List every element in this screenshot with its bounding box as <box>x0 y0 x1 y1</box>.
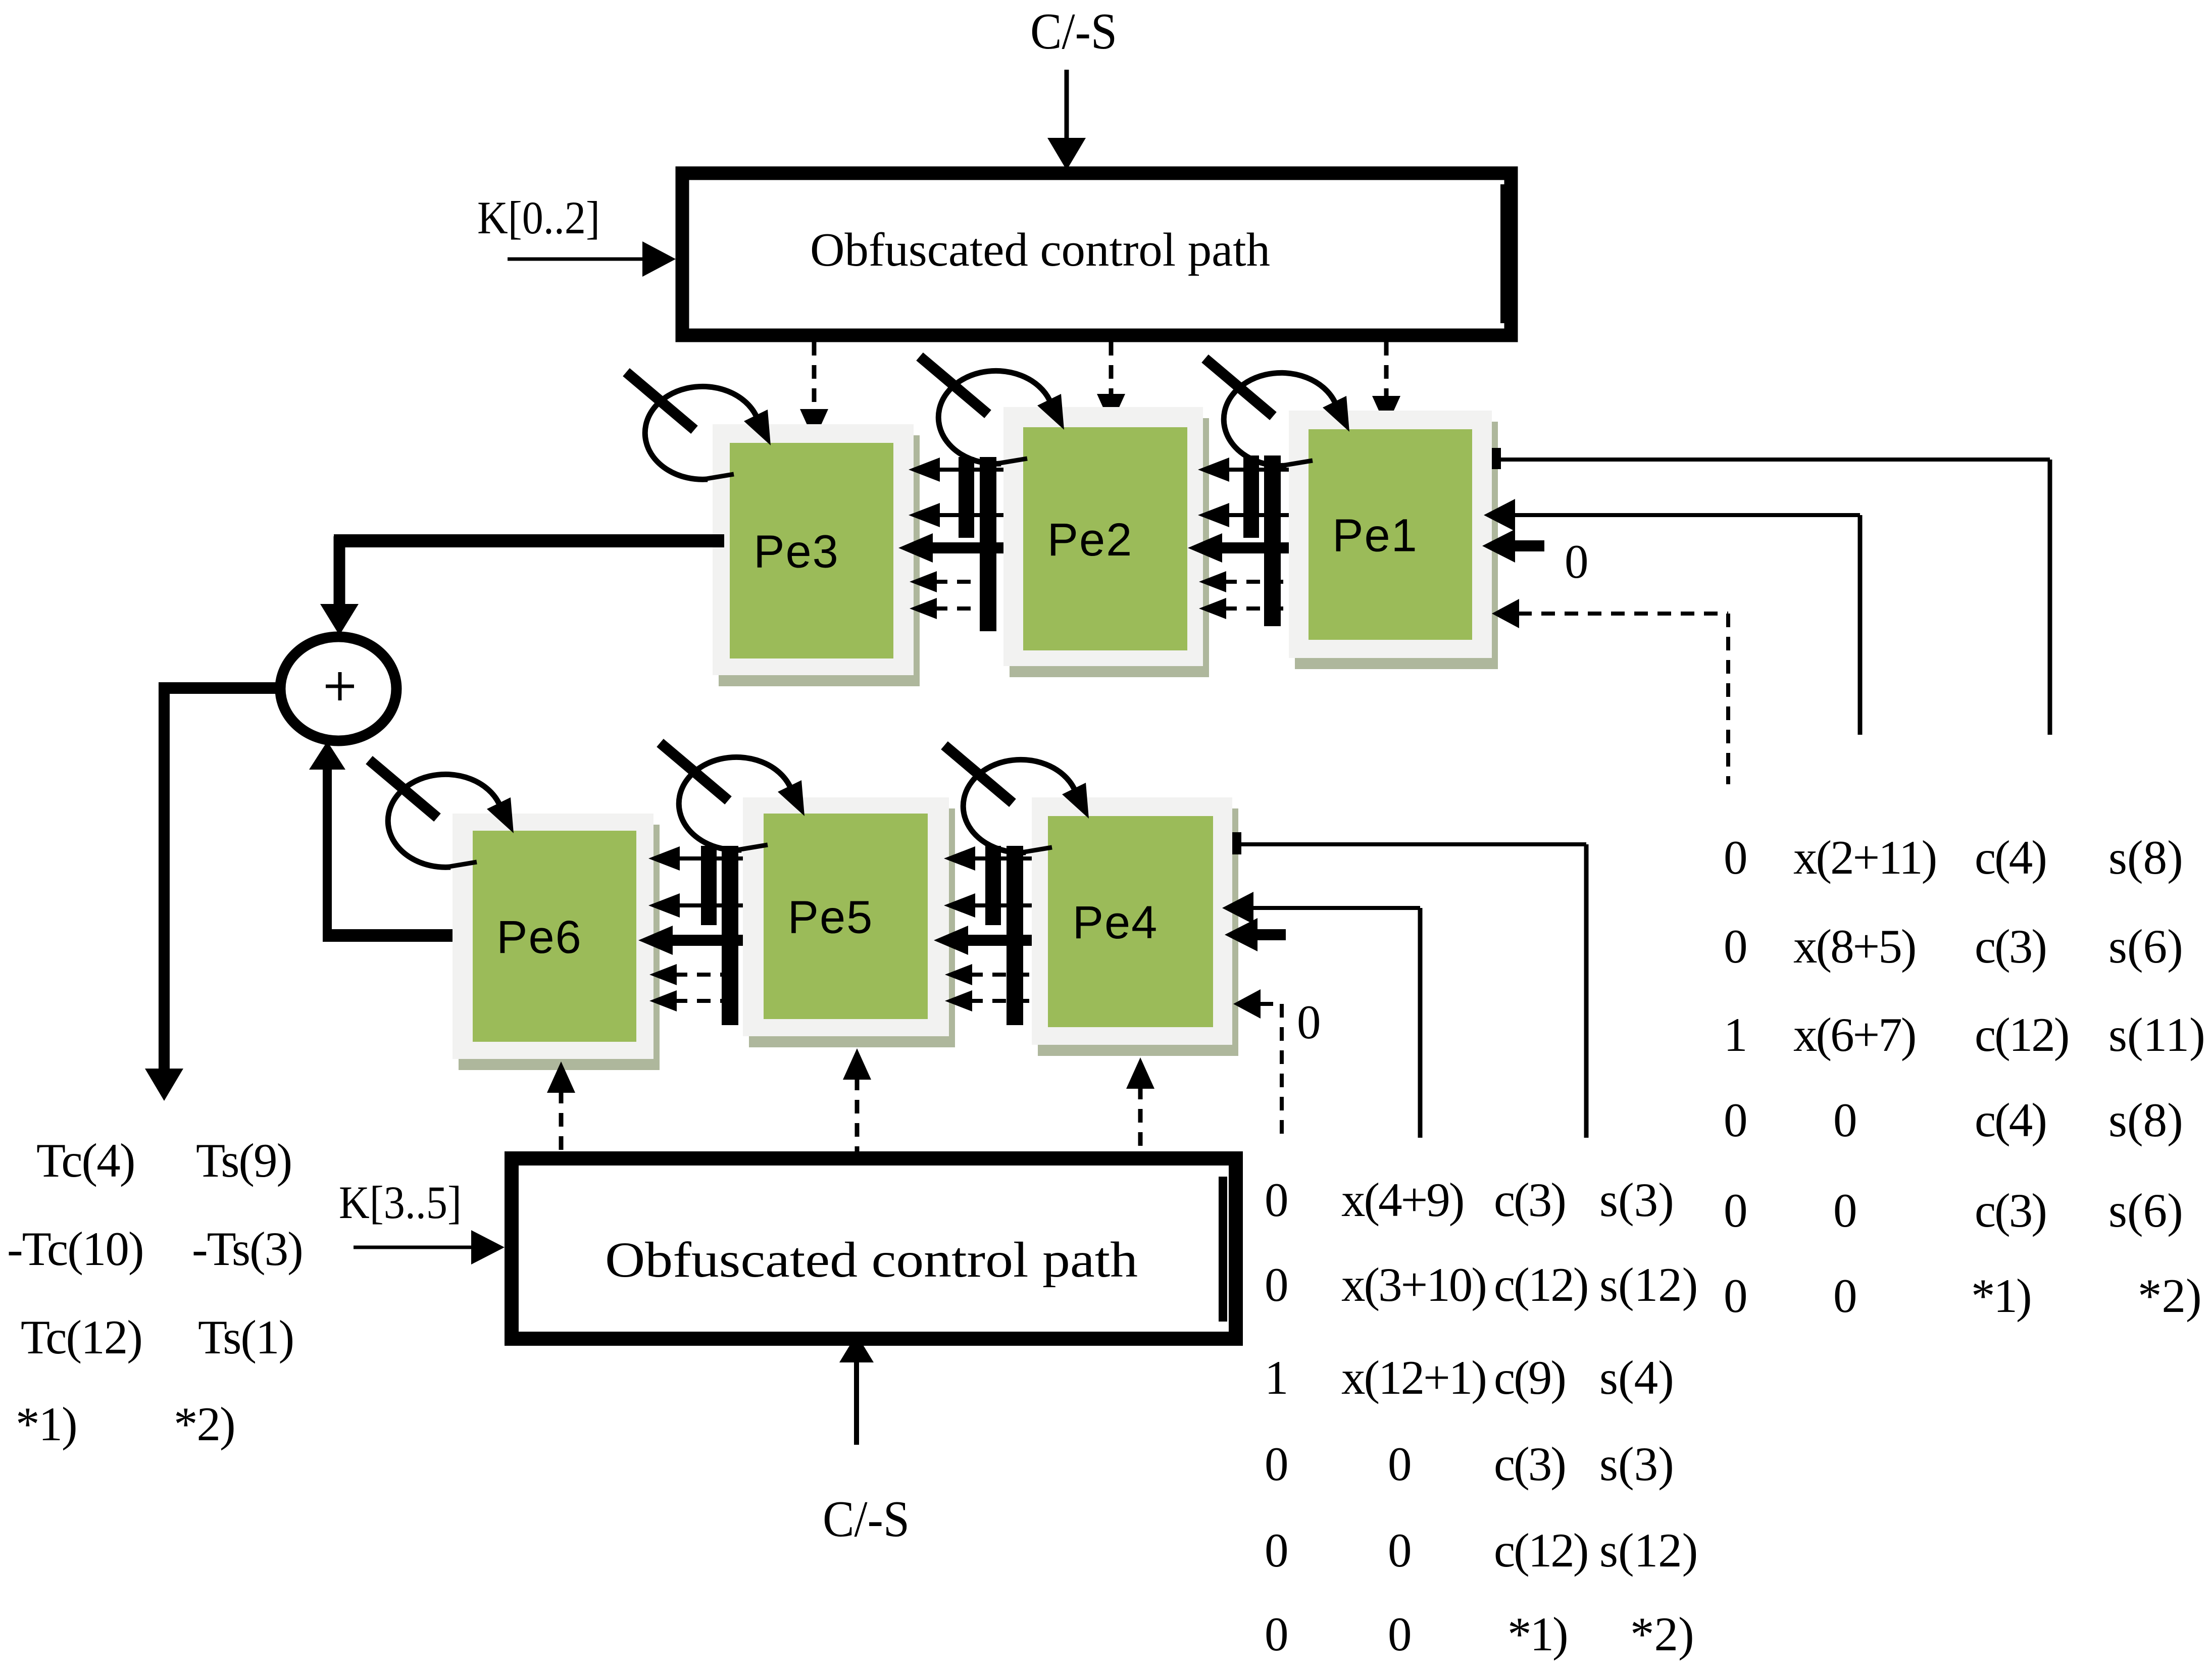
wire Pe4-to-Pe5 line 4 (dashed) <box>945 964 1032 985</box>
block Pe5 <box>743 797 955 1047</box>
svg-text:C/-S: C/-S <box>1030 3 1117 60</box>
svg-text:Pe3: Pe3 <box>753 526 839 578</box>
label right table row 5 <box>1724 1184 2183 1237</box>
label mid table row 4 <box>1265 1437 1674 1491</box>
svg-text:x(8+5): x(8+5) <box>1793 920 1915 973</box>
svg-text:x(2+11): x(2+11) <box>1793 831 1936 884</box>
label mid table row 5 <box>1265 1524 1698 1577</box>
wire adder output down arrow <box>145 682 183 1101</box>
svg-text:Pe2: Pe2 <box>1047 514 1133 566</box>
svg-text:s(4): s(4) <box>1599 1351 1674 1404</box>
svg-text:0: 0 <box>1724 1269 1746 1323</box>
wire K[3..5] arrow into bottom box <box>354 1230 505 1264</box>
svg-text:Pe6: Pe6 <box>496 911 582 963</box>
label right table row 3 <box>1724 1008 2205 1061</box>
wire Pe2-to-Pe3 line 2 <box>909 503 1003 527</box>
wire dashed control to Pe6 <box>547 1061 575 1151</box>
self-loop Pe1 <box>1205 359 1349 466</box>
bar Pe5-to-Pe6 long <box>722 846 738 1025</box>
bar Pe1-to-Pe2 short <box>1243 455 1259 538</box>
svg-text:K[3..5]: K[3..5] <box>339 1177 462 1228</box>
wire Pe1 constant 0 input (thick short) <box>1482 529 1544 563</box>
svg-text:c(3): c(3) <box>1494 1437 1565 1491</box>
bar Pe1-to-Pe2 long <box>1264 455 1281 626</box>
wire Pe4 input 1 from right <box>1232 832 1586 1138</box>
svg-text:-Ts(3): -Ts(3) <box>192 1222 303 1276</box>
svg-text:*1): *1) <box>1971 1269 2031 1323</box>
wire adder output (horizontal) <box>159 682 284 694</box>
wire dashed control to Pe1 <box>1372 342 1400 427</box>
svg-text:c(3): c(3) <box>1975 920 2046 973</box>
wire Pe6 output to adder (horizontal) <box>323 929 453 942</box>
wire Pe4 dashed input from right <box>1233 989 1282 1138</box>
svg-text:c(4): c(4) <box>1975 1093 2046 1147</box>
svg-text:c(3): c(3) <box>1975 1184 2046 1237</box>
svg-text:0: 0 <box>1265 1607 1287 1661</box>
svg-text:0: 0 <box>1833 1093 1856 1147</box>
svg-text:0: 0 <box>1388 1437 1411 1491</box>
svg-text:0: 0 <box>1388 1607 1411 1661</box>
svg-text:0: 0 <box>1265 1173 1287 1227</box>
svg-text:s(8): s(8) <box>2108 1093 2183 1147</box>
wire dashed control to Pe4 <box>1126 1057 1154 1151</box>
wire C/-S into top control box (down arrow) <box>1047 70 1086 170</box>
block obfuscated control path (bottom) <box>512 1158 1236 1339</box>
wire Pe5-to-Pe6 line 3 (thick) <box>638 926 743 955</box>
wire Pe1-to-Pe2 line 3 (thick) <box>1188 533 1289 563</box>
svg-text:0: 0 <box>1724 831 1746 884</box>
wire dashed control to Pe3 <box>800 342 828 440</box>
svg-text:x(3+10): x(3+10) <box>1341 1258 1486 1311</box>
svg-text:Tc(4): Tc(4) <box>36 1134 134 1187</box>
svg-text:c(12): c(12) <box>1494 1258 1587 1311</box>
svg-text:Pe1: Pe1 <box>1332 510 1418 562</box>
svg-text:s(12): s(12) <box>1599 1258 1698 1311</box>
svg-text:s(8): s(8) <box>2108 831 2183 884</box>
svg-text:Pe5: Pe5 <box>788 892 874 943</box>
label right table row 4 <box>1724 1093 2183 1147</box>
svg-text:s(3): s(3) <box>1599 1173 1674 1227</box>
wire Pe1-to-Pe2 line 4 (dashed) <box>1199 571 1289 592</box>
label right table row 6 <box>1724 1269 2202 1323</box>
self-loop Pe6 <box>369 760 514 867</box>
wire Pe4-to-Pe5 line 2 <box>944 893 1032 918</box>
wire Pe1 input 2 from right <box>1484 499 1860 735</box>
svg-text:*1): *1) <box>16 1397 77 1451</box>
svg-text:Pe4: Pe4 <box>1073 897 1159 948</box>
wire Pe2-to-Pe3 line 3 (thick) <box>898 533 1003 563</box>
svg-text:c(9): c(9) <box>1494 1351 1565 1404</box>
svg-text:Ts(9): Ts(9) <box>196 1134 291 1187</box>
wire Pe2-to-Pe3 line 1 <box>909 458 1003 482</box>
svg-text:0: 0 <box>1724 1184 1746 1237</box>
wire Pe3 output to adder (horizontal) <box>334 534 724 547</box>
svg-text:0: 0 <box>1265 1258 1287 1311</box>
svg-text:*2): *2) <box>174 1397 235 1451</box>
bar Pe2-to-Pe3 long <box>980 457 996 631</box>
wire Pe4-to-Pe5 line 3 (thick) <box>934 926 1032 955</box>
svg-text:0: 0 <box>1265 1437 1287 1491</box>
svg-text:s(3): s(3) <box>1599 1437 1674 1491</box>
wire Pe5-to-Pe6 line 5 (dashed) <box>649 990 743 1011</box>
bar Pe5-to-Pe6 short <box>701 846 717 925</box>
self-loop Pe3 <box>626 372 771 479</box>
label right table row 2 <box>1724 920 2183 973</box>
self-loop Pe5 <box>660 743 805 850</box>
block Pe2 <box>1003 407 1209 677</box>
wire Pe1 input 1 from right <box>1492 448 2050 735</box>
self-loop Pe2 <box>920 357 1064 464</box>
wire Pe1-to-Pe2 line 5 (dashed) <box>1199 598 1289 619</box>
svg-text:s(6): s(6) <box>2108 920 2183 973</box>
svg-text:K[0..2]: K[0..2] <box>477 192 600 243</box>
svg-text:s(11): s(11) <box>2108 1008 2205 1061</box>
svg-text:*2): *2) <box>2138 1269 2202 1323</box>
svg-text:s(6): s(6) <box>2108 1184 2183 1237</box>
wire Pe4-to-Pe5 line 1 <box>944 846 1032 871</box>
svg-text:Ts(1): Ts(1) <box>198 1310 293 1364</box>
svg-text:c(3): c(3) <box>1494 1173 1565 1227</box>
label mid table row 1 <box>1265 1173 1674 1227</box>
svg-text:c(12): c(12) <box>1494 1524 1587 1577</box>
wire Pe5-to-Pe6 line 4 (dashed) <box>649 964 743 985</box>
wire Pe2-to-Pe3 line 5 (dashed) <box>910 598 1003 619</box>
svg-text:c(4): c(4) <box>1975 831 2046 884</box>
wire Pe2-to-Pe3 line 4 (dashed) <box>910 571 1003 592</box>
block Pe6 <box>453 814 660 1070</box>
svg-text:c(12): c(12) <box>1975 1008 2068 1061</box>
adder + <box>280 637 396 741</box>
svg-text:0: 0 <box>1297 995 1321 1049</box>
svg-text:0: 0 <box>1265 1524 1287 1577</box>
label mid table row 2 <box>1265 1258 1698 1311</box>
svg-text:0: 0 <box>1724 1093 1746 1147</box>
svg-text:x(12+1): x(12+1) <box>1341 1351 1486 1404</box>
block Pe1 <box>1289 411 1498 669</box>
wire Pe4 constant 0 input (thick short) <box>1225 918 1286 951</box>
svg-text:-Tc(10): -Tc(10) <box>7 1222 143 1276</box>
block Pe4 <box>1032 797 1238 1056</box>
svg-text:1: 1 <box>1724 1008 1746 1061</box>
svg-text:x(4+9): x(4+9) <box>1341 1173 1463 1227</box>
label right table row 1 <box>1724 831 2183 884</box>
bar Pe4-to-Pe5 short <box>985 846 1001 925</box>
wire Pe4-to-Pe5 line 5 (dashed) <box>945 990 1032 1011</box>
self-loop Pe4 <box>944 745 1089 852</box>
svg-text:1: 1 <box>1265 1351 1287 1404</box>
wire dashed control to Pe2 <box>1097 342 1125 425</box>
svg-text:C/-S: C/-S <box>823 1491 910 1548</box>
svg-text:Obfuscated control path: Obfuscated control path <box>810 224 1270 276</box>
svg-text:Tc(12): Tc(12) <box>21 1310 142 1364</box>
svg-text:0: 0 <box>1833 1269 1856 1323</box>
wire dashed control to Pe5 <box>843 1048 871 1151</box>
wire Pe6 output up into adder <box>309 741 345 940</box>
svg-text:*1): *1) <box>1507 1607 1567 1661</box>
wire C/-S into bottom control box (up arrow) <box>839 1334 874 1445</box>
svg-text:s(12): s(12) <box>1599 1524 1698 1577</box>
block Pe3 <box>713 424 920 686</box>
label mid table row 6 <box>1265 1607 1694 1661</box>
wire Pe5-to-Pe6 line 2 <box>648 893 743 918</box>
wire Pe3 output down into adder <box>320 536 359 635</box>
svg-text:0: 0 <box>1724 920 1746 973</box>
svg-text:0: 0 <box>1833 1184 1856 1237</box>
wire Pe1 dashed input from right <box>1492 599 1728 784</box>
block obfuscated control path (top) <box>682 173 1511 335</box>
svg-text:x(6+7): x(6+7) <box>1793 1008 1915 1061</box>
bar Pe4-to-Pe5 long <box>1007 846 1023 1025</box>
wire Pe5-to-Pe6 line 1 <box>648 846 743 871</box>
label mid table row 3 <box>1265 1351 1674 1404</box>
svg-text:0: 0 <box>1388 1524 1411 1577</box>
wire Pe1-to-Pe2 line 1 <box>1198 458 1289 482</box>
wire K[0..2] arrow into top box <box>508 241 676 277</box>
svg-text:Obfuscated control path: Obfuscated control path <box>605 1232 1138 1288</box>
svg-text:*2): *2) <box>1630 1607 1694 1661</box>
wire Pe1-to-Pe2 line 2 <box>1198 503 1289 527</box>
wire Pe4 input 2 from right <box>1222 892 1420 1138</box>
bar Pe2-to-Pe3 short <box>959 457 974 538</box>
svg-text:0: 0 <box>1565 535 1589 588</box>
